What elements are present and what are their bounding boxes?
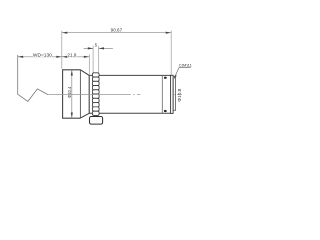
arrow 5 right [99,47,104,49]
svg-text:WD=130: WD=130 [33,52,53,57]
leader arrowhead [174,75,177,79]
centerline rear segment [173,94,182,96]
centerline (optical axis) [48,94,140,96]
dimension 90.67 line [62,32,171,34]
thumbscrew head [90,117,103,125]
extension lines knurl width [92,46,94,73]
dimension 21.9 line [62,56,90,58]
hood diameter dimension line [71,70,73,118]
rear flange ring [171,75,174,113]
arrow hood dia top [71,70,73,75]
arrow 5 left [88,47,93,49]
extension line front face [61,31,63,69]
svg-text:21.9: 21.9 [67,53,77,58]
svg-text:90.67: 90.67 [111,28,123,33]
arrow 21.9 left [62,56,68,58]
dimension 5 line [84,47,94,49]
svg-text:C(M)11: C(M)11 [179,62,193,67]
svg-text:Φ40.4: Φ40.4 [67,86,72,98]
arrow 21.9 right [84,56,90,58]
thumbscrew neck [94,115,97,116]
dimension WD=130 line [18,56,62,58]
screw top (side view) [164,77,167,79]
lens hood outline [63,70,90,118]
mount leader line [174,68,191,79]
wire: object plane zigzag (break symbol) [18,55,48,101]
extension line rear [170,31,172,75]
arrow 90.67 right [166,32,172,34]
label WD=130 [33,52,52,57]
arrow WD right [56,56,62,58]
arrow hood dia bottom [71,113,73,118]
screw bottom (side view) [164,110,167,112]
svg-text:Φ10.8: Φ10.8 [177,88,182,102]
barrel internal edge [161,75,163,113]
arrow 90.67 left [62,32,68,34]
barrel body [89,75,170,113]
label 21.9 [67,52,77,57]
rear mount stub [173,77,175,111]
extension line hood rear [88,54,90,74]
arrow WD left [18,56,24,58]
knurled focus ring [92,73,99,116]
hood chamfer edge line [79,70,81,118]
